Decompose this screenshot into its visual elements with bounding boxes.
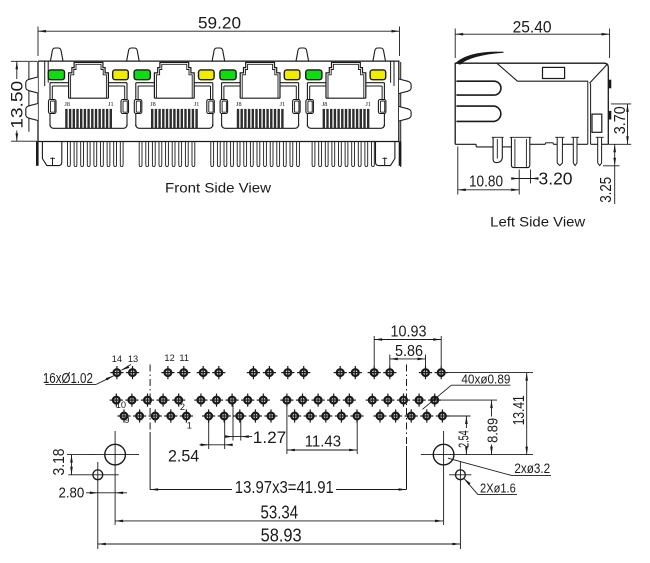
svg-text:2.80: 2.80 [59,484,85,501]
side view solder post [511,137,529,167]
svg-text:53.34: 53.34 [261,502,299,523]
svg-text:J1: J1 [108,101,114,108]
right corner post [399,142,402,166]
shield top tab 2 [127,48,140,61]
port1 centerline [149,365,151,433]
right EMI finger 1 [399,79,411,94]
left flange edge line [28,62,30,132]
svg-text:5.86: 5.86 [395,343,423,360]
svg-text:10: 10 [116,400,126,410]
dim 3.18 ext line [67,454,92,456]
RJ45 port 3 (J6) [220,62,300,128]
svg-text:3.18: 3.18 [51,448,68,475]
hole row right reference line [471,454,533,456]
svg-text:13.50: 13.50 [8,81,27,129]
svg-text:8.89: 8.89 [485,418,502,443]
front view body right edge [398,61,400,141]
svg-text:2.54: 2.54 [168,447,199,466]
dim 13.50 ext lines [11,60,37,62]
svg-text:13.41: 13.41 [511,395,528,425]
label 2XD1.6 leader [464,479,471,486]
svg-text:11: 11 [179,353,189,363]
front view shield body top edge [38,60,400,62]
svg-text:10.93: 10.93 [391,324,427,341]
svg-text:J8: J8 [322,101,328,108]
20 signal pin holes middle row [110,394,442,407]
right EMI finger 2 [399,107,411,122]
dim 3.25 ext line [603,165,620,167]
dim 2.54 right line [465,416,467,428]
mounting hole right (3.2mm) [433,444,454,465]
shield top tab 3 [212,48,225,61]
side view plastic peg [493,137,502,162]
locating hole right (1.6mm) [456,470,466,480]
svg-text:14: 14 [112,354,122,364]
dim 3.20 ext line [530,170,532,184]
dim 3.70 line [627,104,629,144]
label 40xD0.89 leader [451,384,510,386]
locating hole left (1.6mm) [93,470,103,480]
svg-text:2xø3.2: 2xø3.2 [514,460,550,476]
dim 41.91 line [150,489,232,491]
dim 3.25 line [614,144,616,204]
dim 25.40 ext lines [454,29,456,59]
side view EMI whisker [457,52,504,64]
shield top tab 4 [296,48,309,61]
svg-text:10.80: 10.80 [469,173,503,190]
side view top fold left diagonal [497,63,518,81]
ext lines for dim 10.93 [373,336,375,366]
svg-text:40xø0.89: 40xø0.89 [461,372,510,387]
svg-text:2: 2 [180,402,185,412]
RJ45 port 4 (J5) [306,62,386,128]
front bottom thin shield legs [68,142,375,167]
side view lower-right rect hole [592,114,602,132]
side view pin 2 [573,137,577,165]
svg-text:13: 13 [128,354,138,364]
svg-text:J1: J1 [280,101,286,108]
dim 53.34 line [115,520,443,522]
ext lines for dim 11.43 [286,400,288,454]
svg-text:12: 12 [164,353,174,363]
label 16xD1.02 leader [45,383,96,385]
side view back wall lines [587,81,589,144]
dim 58.93 line [98,543,461,545]
dim 59.20 ext lines [37,27,39,57]
svg-text:1.27: 1.27 [253,428,287,447]
svg-text:11.43: 11.43 [305,433,341,450]
shield top tab 5 [373,48,386,61]
front body bottom edge [38,141,400,143]
RJ45 port 1 (J8) [48,62,128,128]
left EMI finger 1 [26,77,38,93]
svg-text:J1: J1 [365,101,371,108]
right flange edge line [400,62,402,167]
side view bottom edge segments [455,143,476,145]
port4 centerline [406,365,408,447]
front view body left edge [37,61,39,141]
svg-text:J8: J8 [236,101,242,108]
side view pin 3 [598,137,602,165]
shield top tab 1 [50,48,63,61]
side view top fold right diagonal [590,64,608,83]
top row right reference line [448,372,533,374]
svg-text:59.20: 59.20 [198,13,241,32]
dim 10.80 ext lines [457,147,459,195]
left end wall lines [44,61,46,86]
svg-text:J1: J1 [194,101,200,108]
label 2xD3.2 leader [448,458,512,475]
side view top small rect hole [543,67,565,78]
dim 3.18 line [71,455,73,475]
dim 59.20 line [38,30,400,32]
dim 11.43 line [287,449,357,451]
mid row right reference line [442,399,498,401]
svg-text:3.20: 3.20 [539,169,573,189]
side view board lock tick 1 [609,80,612,89]
side view top fold horizontal [518,80,589,82]
side view board lock tick 2 [609,111,612,120]
svg-text:Front Side View: Front Side View [165,181,271,196]
dim 1.27 line [226,436,253,438]
ext lines for dim 1.27 [232,400,234,440]
mounting hole left (3.2mm) [105,444,126,465]
dim 25.40 line [455,33,609,35]
low row right reference line [449,415,471,417]
svg-text:J8: J8 [150,101,156,108]
svg-text:3.25: 3.25 [598,177,615,203]
right end wall lines [393,61,395,86]
svg-text:J8: J8 [64,101,70,108]
dim 10.80 line [458,189,519,191]
ext lines for dim 2.54 left [208,416,210,449]
svg-text:3.70: 3.70 [612,106,629,134]
svg-text:13.97x3=41.91: 13.97x3=41.91 [235,477,334,497]
dim 3.70 ext lines [611,103,631,105]
dim 2.80 line [86,492,127,494]
svg-text:Left Side View: Left Side View [490,214,585,229]
dim 13.41 line [526,373,528,455]
side view outer body [455,63,608,144]
left EMI finger 2 [26,104,38,121]
svg-text:58.93: 58.93 [261,525,302,546]
svg-text:1: 1 [187,420,192,430]
svg-text:2.54: 2.54 [457,430,473,448]
dim 8.89 line [491,400,493,416]
svg-text:25.40: 25.40 [513,17,552,36]
side view vent slot 2 [456,106,500,121]
side view pin 1 [557,137,562,165]
20 signal pin holes lower row [117,409,449,422]
dim 3.20 line [512,178,539,180]
dim 13.50 line [16,61,18,79]
svg-text:9: 9 [124,415,129,425]
ext lines for dim 5.86 [389,355,391,367]
RJ45 port 2 (J7) [134,62,214,128]
16 LED pin holes top row [110,366,448,379]
left corner post [36,142,39,166]
dim 5.86 line [390,358,426,360]
dim 2.54 line [200,444,233,446]
svg-text:2Xø1.6: 2Xø1.6 [480,480,516,495]
left tub leg [42,142,61,166]
dim 10.93 line [374,339,441,341]
right tub leg [376,142,395,166]
side view vent slot 1 [456,81,501,95]
